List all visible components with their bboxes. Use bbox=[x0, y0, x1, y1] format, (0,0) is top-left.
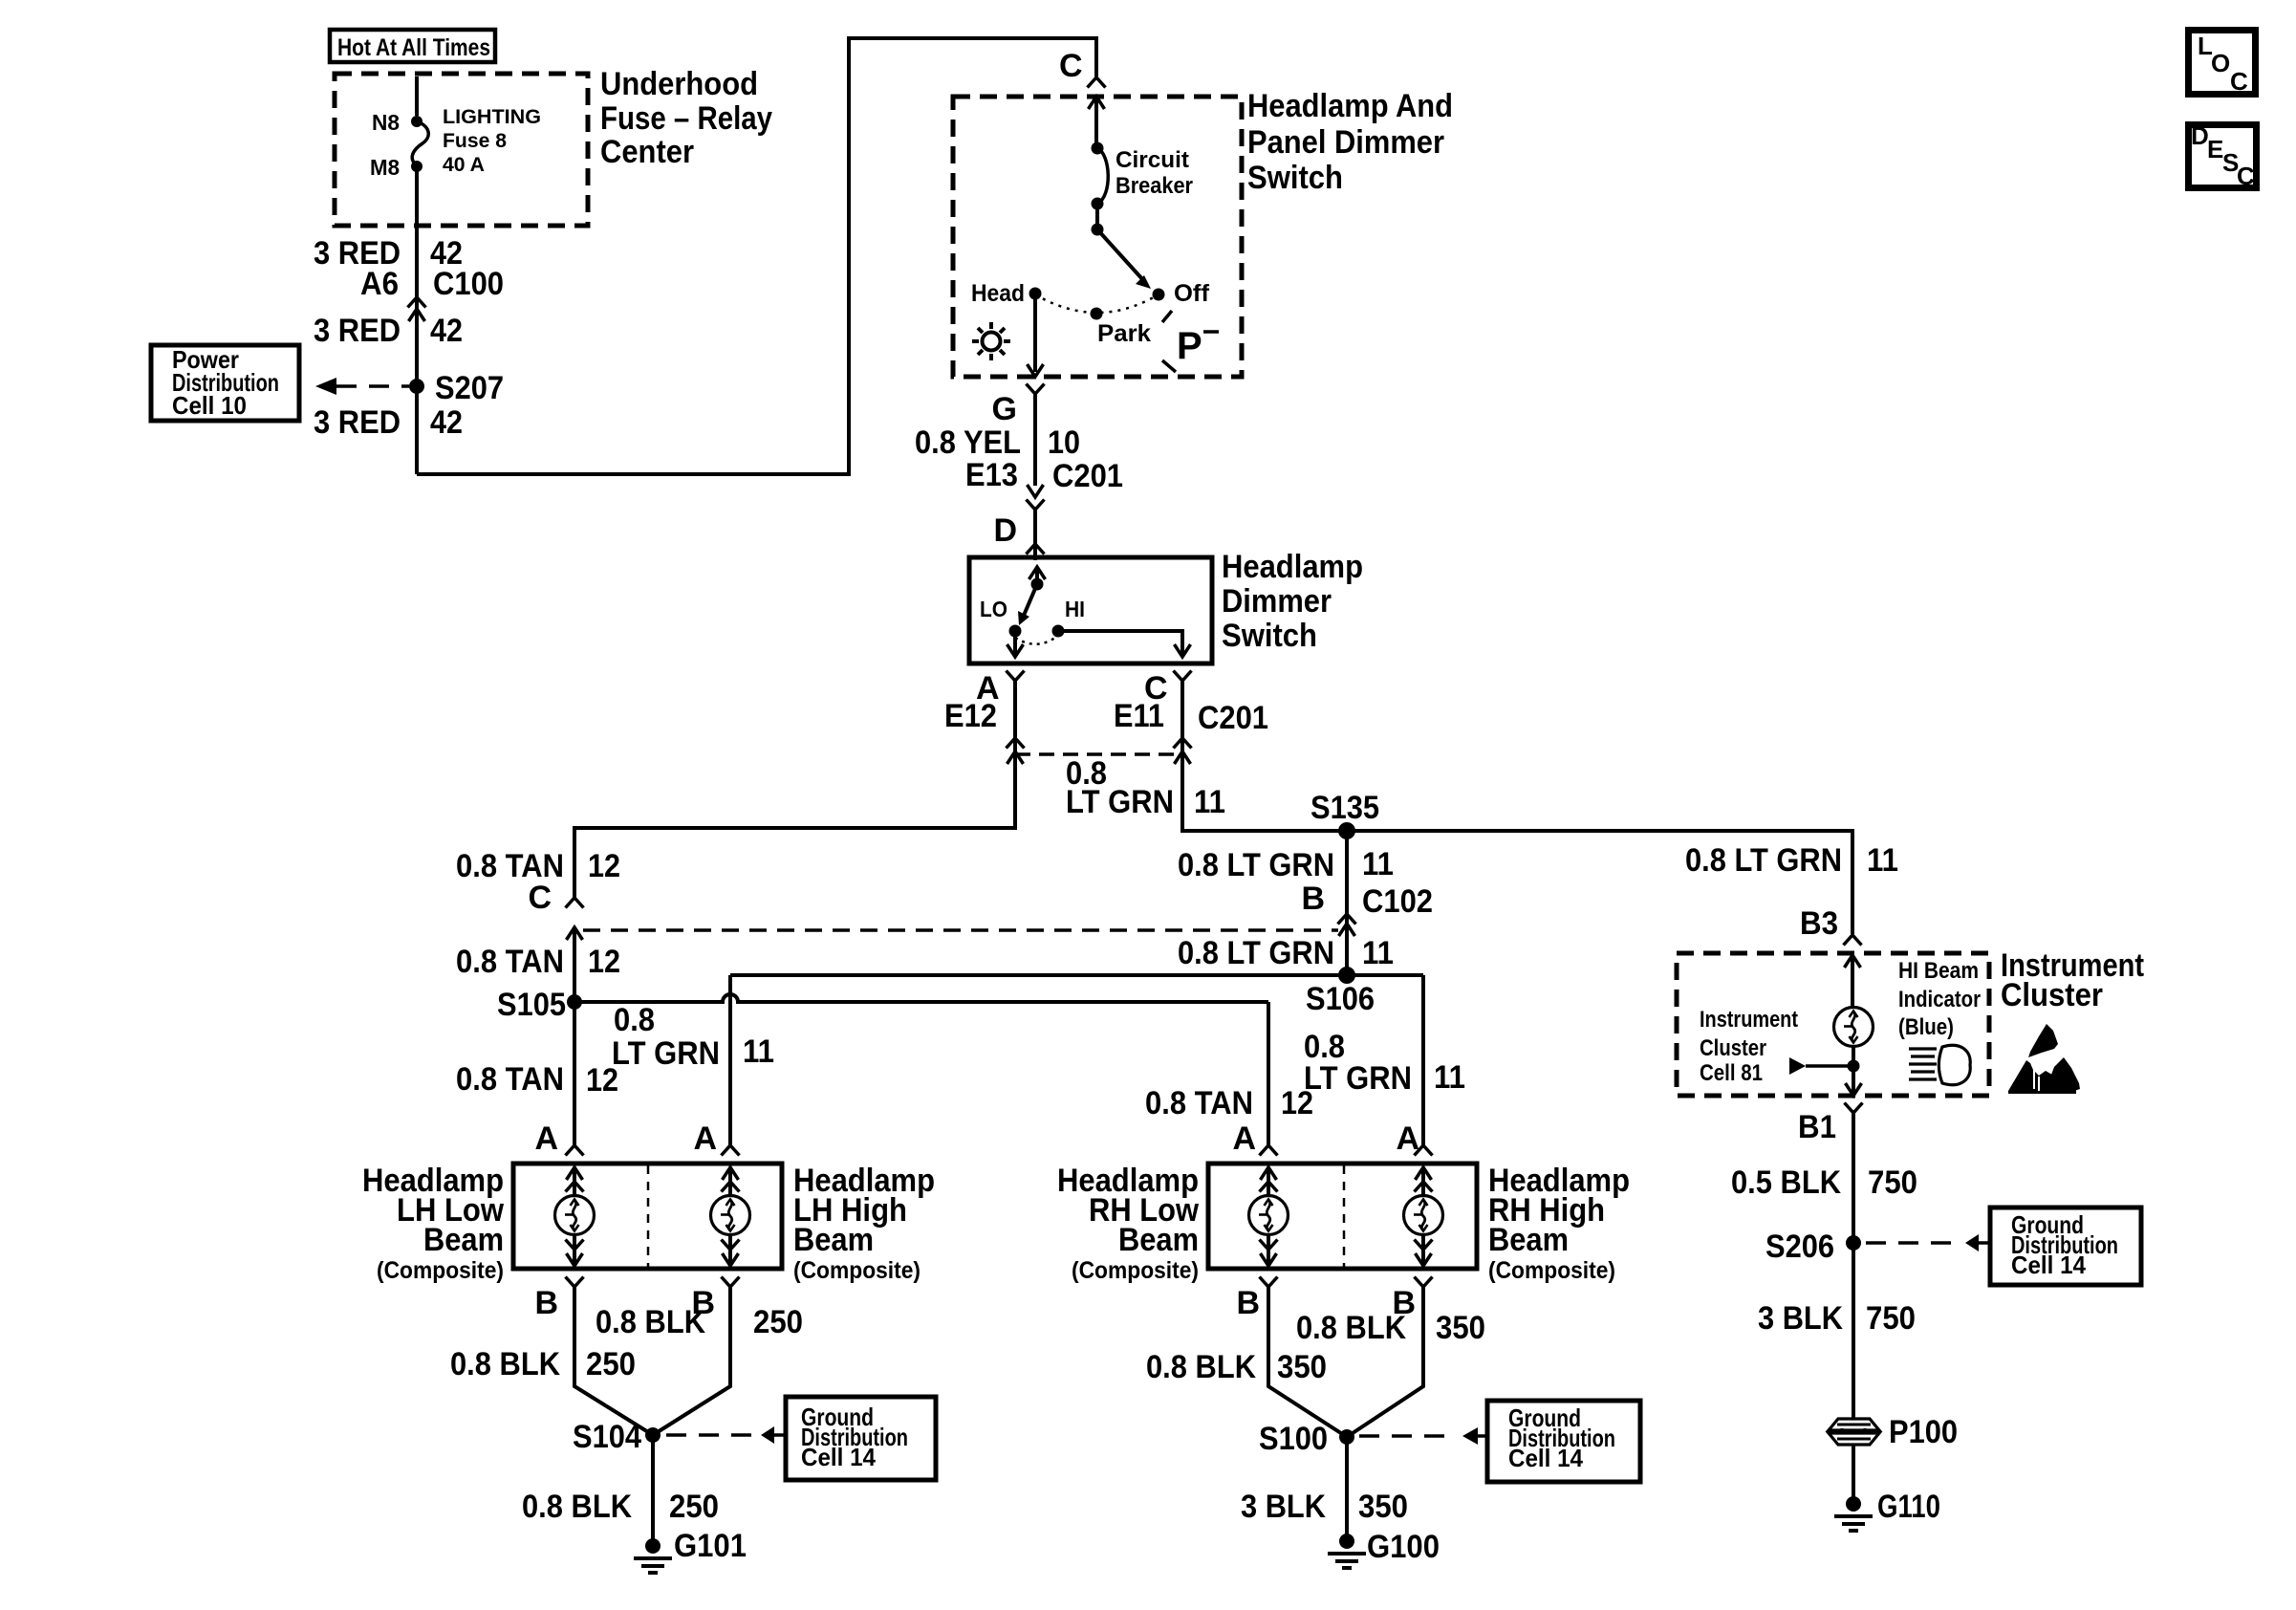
splice S104 bbox=[645, 1427, 661, 1443]
svg-text:S100: S100 bbox=[1259, 1421, 1328, 1457]
connector pin A chevron below dimmer bbox=[1007, 671, 1025, 682]
dashed reference arrow S104 to ground distribution bbox=[666, 1426, 786, 1444]
wire: G to C201 bbox=[1033, 394, 1037, 486]
wire: battery feed into fuse bbox=[415, 76, 419, 116]
connector pin B1 chevron bbox=[1845, 1103, 1863, 1114]
label A6 C100 bbox=[360, 266, 504, 302]
svg-text:0.8 BLK: 0.8 BLK bbox=[1146, 1349, 1256, 1385]
svg-text:Dimmer: Dimmer bbox=[1222, 583, 1332, 620]
legend box DESC bbox=[2189, 121, 2257, 190]
label 0.8 TAN 12 (above C102) bbox=[456, 848, 620, 884]
label 0.8 LT GRN 11 (below C102) bbox=[1178, 935, 1394, 971]
svg-text:11: 11 bbox=[1867, 842, 1898, 879]
dimmer switch common arm bbox=[1018, 567, 1046, 625]
switch arm with arrowhead bbox=[1097, 229, 1151, 289]
svg-text:Beam: Beam bbox=[793, 1222, 874, 1258]
bulb: Headlamp LH Low Beam bbox=[555, 1196, 595, 1235]
svg-text:0.8 LT GRN: 0.8 LT GRN bbox=[1178, 847, 1334, 883]
svg-text:11: 11 bbox=[743, 1033, 774, 1070]
svg-text:750: 750 bbox=[1868, 1164, 1917, 1201]
dashed reference arrow S100 to ground distribution bbox=[1359, 1427, 1487, 1445]
label 3 BLK 350 (to G100) bbox=[1241, 1489, 1408, 1525]
component box: RH headlamps bbox=[1208, 1164, 1477, 1269]
contact LO with output arrow bbox=[1007, 625, 1024, 658]
LH high beam terminal arrows (B side) bbox=[722, 1236, 740, 1266]
label: Headlamp RH High Beam (Composite) bbox=[1488, 1163, 1630, 1284]
svg-text:11: 11 bbox=[1362, 935, 1394, 971]
svg-text:C: C bbox=[528, 880, 552, 916]
pass-through grommet P100 bbox=[1829, 1419, 1879, 1445]
svg-text:S104: S104 bbox=[573, 1419, 641, 1455]
svg-text:Cell 14: Cell 14 bbox=[2011, 1251, 2087, 1279]
svg-text:Circuit: Circuit bbox=[1116, 147, 1189, 173]
connector pin B chevron (RH high) bbox=[1415, 1277, 1433, 1288]
svg-text:Beam: Beam bbox=[423, 1222, 504, 1258]
svg-text:Cluster: Cluster bbox=[2001, 977, 2103, 1013]
svg-text:D: D bbox=[993, 512, 1017, 549]
connector pin A chevron (RH high) bbox=[1415, 1145, 1433, 1156]
component box: Instrument Cluster (dashed) bbox=[1677, 953, 1989, 1096]
svg-text:10: 10 bbox=[1048, 424, 1080, 461]
label 3 RED 42 (below C100) bbox=[314, 313, 463, 349]
connector pin A chevron (LH high) bbox=[722, 1145, 740, 1156]
svg-text:3 BLK: 3 BLK bbox=[1241, 1489, 1326, 1525]
connector C201 pin E12 (chevron + arrow) bbox=[1007, 738, 1025, 764]
label 3 RED 42 (below S207) bbox=[314, 404, 463, 441]
bulb: Headlamp RH Low Beam bbox=[1249, 1196, 1289, 1235]
ESD sensitive device logo bbox=[2008, 1024, 2080, 1094]
svg-text:E13: E13 bbox=[965, 457, 1018, 493]
wire: S104 to G101 bbox=[651, 1435, 655, 1539]
svg-text:A: A bbox=[534, 1120, 558, 1157]
svg-text:M8: M8 bbox=[370, 155, 400, 180]
svg-text:B3: B3 bbox=[1800, 905, 1838, 942]
reference box: Ground Distribution Cell 14 (RH) bbox=[1487, 1401, 1640, 1482]
wire: S106 right branch down to RH high beam bbox=[1421, 975, 1425, 1145]
reference box: Ground Distribution Cell 14 (LH) bbox=[786, 1397, 936, 1480]
svg-text:Underhood: Underhood bbox=[600, 66, 758, 102]
connector pin C chevron below dimmer bbox=[1174, 671, 1192, 682]
component box: Headlamp And Panel Dimmer Switch (dashed) bbox=[953, 97, 1242, 377]
contact Head bbox=[1029, 288, 1042, 300]
dotted arc LO to HI bbox=[1015, 637, 1056, 644]
svg-text:Hot At All Times: Hot At All Times bbox=[337, 34, 490, 61]
svg-text:A: A bbox=[1232, 1120, 1256, 1157]
dashed divider LH box bbox=[647, 1165, 650, 1267]
svg-text:Beam: Beam bbox=[1488, 1222, 1569, 1258]
svg-text:Fuse – Relay: Fuse – Relay bbox=[600, 100, 772, 137]
LH low beam terminal arrows (B side) bbox=[566, 1236, 584, 1266]
svg-text:S207: S207 bbox=[435, 370, 504, 406]
splice S106 bbox=[1338, 967, 1355, 984]
svg-text:11: 11 bbox=[1434, 1059, 1465, 1096]
contact Off bbox=[1153, 289, 1165, 301]
connector pin B chevron (LH low) bbox=[566, 1277, 584, 1288]
wire: RH low beam drop bbox=[1267, 1002, 1270, 1145]
svg-text:42: 42 bbox=[430, 404, 463, 441]
circuit breaker bbox=[1092, 142, 1109, 236]
label: HI Beam Indicator (Blue) bbox=[1898, 958, 1981, 1040]
label B C102 bbox=[1301, 881, 1433, 920]
svg-text:3 RED: 3 RED bbox=[314, 313, 401, 349]
label 0.8 BLK 250 (LH high) bbox=[596, 1304, 803, 1340]
wire: S105 horizontal to RH low beam with hop over LH high wire bbox=[574, 994, 1268, 1002]
svg-text:E12: E12 bbox=[944, 698, 997, 734]
svg-text:LO: LO bbox=[980, 597, 1007, 621]
connector pin D chevron bbox=[1027, 544, 1045, 555]
label 0.8 LT GRN 11 (RH high beam) bbox=[1304, 1029, 1465, 1097]
svg-text:P100: P100 bbox=[1889, 1414, 1958, 1450]
bulb: Headlamp LH High Beam bbox=[711, 1196, 750, 1235]
svg-text:Fuse 8: Fuse 8 bbox=[443, 130, 507, 152]
svg-text:350: 350 bbox=[1277, 1349, 1327, 1385]
svg-text:Center: Center bbox=[600, 134, 694, 170]
wire: S100 to G100 bbox=[1345, 1437, 1349, 1534]
high beam indicator icon bbox=[1909, 1045, 1970, 1084]
wire: E11 (high beam feed) down, right through S135 to instrument cluster bbox=[1182, 681, 1852, 934]
label 0.5 BLK 750 bbox=[1731, 1164, 1917, 1201]
dashed divider RH box bbox=[1343, 1165, 1346, 1267]
label: Headlamp Dimmer Switch bbox=[1222, 549, 1363, 654]
svg-text:0.8 BLK: 0.8 BLK bbox=[522, 1489, 632, 1525]
svg-text:Cell 14: Cell 14 bbox=[801, 1443, 877, 1471]
connector pin A chevron (LH low) bbox=[566, 1145, 584, 1156]
ground G101 bbox=[634, 1538, 672, 1573]
reference arrow from Instrument Cluster Cell 81 bbox=[1789, 1057, 1849, 1075]
wire: C102 to S105 and LH low beam bbox=[573, 927, 576, 1145]
dashed reference arrow to Power Distribution bbox=[315, 378, 409, 395]
svg-text:S206: S206 bbox=[1765, 1229, 1834, 1265]
splice S105 bbox=[567, 994, 582, 1010]
svg-text:0.5 BLK: 0.5 BLK bbox=[1731, 1164, 1841, 1201]
wire: S207 down, right, up and over to headlamp switch pin C bbox=[417, 38, 1096, 474]
park lamp icon P bbox=[1162, 311, 1219, 372]
dotted selector travel arc bbox=[1035, 294, 1159, 313]
svg-text:C102: C102 bbox=[1362, 883, 1433, 920]
svg-text:G100: G100 bbox=[1367, 1529, 1440, 1565]
svg-text:Cluster: Cluster bbox=[1700, 1035, 1766, 1061]
svg-text:(Composite): (Composite) bbox=[377, 1257, 504, 1284]
svg-text:S106: S106 bbox=[1306, 981, 1375, 1017]
junction to cluster cell 81 bbox=[1848, 1060, 1860, 1073]
connector pin A chevron (RH low) bbox=[1260, 1145, 1278, 1156]
wire: S106 horizontal distribution to LH and RH high beams bbox=[730, 973, 1423, 977]
label: LIGHTING Fuse 8 40 A bbox=[443, 106, 541, 176]
wire: RH low beam ground to S100 bbox=[1268, 1287, 1347, 1437]
svg-text:Switch: Switch bbox=[1222, 618, 1317, 654]
svg-text:O: O bbox=[2211, 49, 2230, 77]
reference box: Ground Distribution Cell 14 (cluster) bbox=[1990, 1207, 2141, 1285]
LH high beam terminal arrows (A side) bbox=[722, 1167, 740, 1195]
label 0.8 TAN 12 (RH low beam) bbox=[1145, 1085, 1313, 1121]
wire: S135 down to S106 bbox=[1345, 831, 1349, 975]
svg-text:G: G bbox=[992, 391, 1017, 427]
svg-text:0.8 TAN: 0.8 TAN bbox=[1145, 1085, 1253, 1121]
label 0.8 BLK 250 (to G101) bbox=[522, 1489, 719, 1525]
legend box LOC bbox=[2189, 31, 2256, 97]
label 0.8 LT GRN 11 (to instrument cluster) bbox=[1685, 842, 1898, 879]
wire: B1 to S206 to P100 to G110 bbox=[1852, 1113, 1855, 1497]
connector pin G chevron bbox=[1027, 384, 1045, 395]
wire: fuse output M8 down through C100 to S207 and corner bbox=[415, 166, 419, 474]
svg-text:11: 11 bbox=[1362, 846, 1394, 882]
RH high beam terminal arrows (B side) bbox=[1415, 1236, 1433, 1266]
wire: LH high beam ground to S104 bbox=[653, 1287, 730, 1435]
wire: indicator to B1 bbox=[1852, 1047, 1855, 1093]
label 0.8 LT GRN 11 (above C102) bbox=[1178, 846, 1394, 883]
wire: E12 (low beam feed) down and left bbox=[574, 681, 1015, 898]
dashed connector line C102 bbox=[583, 928, 1338, 932]
dashed reference arrow S206 to ground distribution bbox=[1866, 1234, 1990, 1251]
svg-text:LT GRN: LT GRN bbox=[612, 1035, 720, 1072]
label 0.8 TAN 12 (LH low beam) bbox=[456, 1061, 618, 1099]
label: Instrument Cluster (component name) bbox=[2001, 947, 2144, 1013]
svg-text:250: 250 bbox=[586, 1346, 636, 1382]
svg-text:Headlamp: Headlamp bbox=[1222, 549, 1363, 585]
svg-text:350: 350 bbox=[1436, 1310, 1485, 1346]
label: Headlamp LH Low Beam (Composite) bbox=[362, 1163, 504, 1284]
svg-text:Cell 14: Cell 14 bbox=[1508, 1444, 1584, 1472]
svg-text:P: P bbox=[1177, 325, 1202, 367]
svg-text:Indicator: Indicator bbox=[1898, 987, 1981, 1012]
svg-text:E11: E11 bbox=[1114, 698, 1164, 734]
label 0.8 YEL 10 bbox=[915, 424, 1080, 461]
svg-text:LT GRN: LT GRN bbox=[1304, 1060, 1412, 1097]
label: Instrument Cluster Cell 81 bbox=[1700, 1007, 1798, 1086]
svg-text:(Composite): (Composite) bbox=[793, 1257, 921, 1284]
connector C201 pin E11 (chevron + arrow) bbox=[1174, 738, 1192, 764]
svg-text:C: C bbox=[2237, 162, 2255, 190]
wire/arrow entering cluster at B3 bbox=[1845, 955, 1861, 1007]
splice S100 bbox=[1339, 1429, 1354, 1445]
svg-text:0.8 BLK: 0.8 BLK bbox=[1296, 1310, 1406, 1346]
connector C100 pin A6 (chevron + arrow) bbox=[408, 297, 426, 321]
svg-text:Headlamp And: Headlamp And bbox=[1247, 88, 1453, 124]
svg-text:250: 250 bbox=[669, 1489, 719, 1525]
label: Headlamp And Panel Dimmer Switch bbox=[1247, 88, 1453, 196]
svg-text:HI: HI bbox=[1065, 597, 1085, 621]
svg-text:0.8 TAN: 0.8 TAN bbox=[456, 944, 564, 980]
svg-text:40 A: 40 A bbox=[443, 154, 485, 176]
contact Park bbox=[1091, 308, 1103, 320]
power source label box "Hot At All Times" bbox=[330, 30, 495, 62]
svg-text:B: B bbox=[1301, 881, 1325, 917]
svg-text:C201: C201 bbox=[1198, 700, 1268, 736]
wire: LH low beam ground to S104 bbox=[574, 1287, 653, 1435]
RH low beam terminal arrows (A side) bbox=[1260, 1167, 1278, 1195]
wire: C201 to dimmer switch pin D bbox=[1033, 510, 1037, 560]
svg-text:G110: G110 bbox=[1877, 1489, 1940, 1525]
svg-text:12: 12 bbox=[588, 944, 620, 980]
svg-text:(Composite): (Composite) bbox=[1072, 1257, 1199, 1284]
svg-text:0.8 LT GRN: 0.8 LT GRN bbox=[1178, 935, 1334, 971]
connector C102 pin B (chevron + arrow) bbox=[1338, 914, 1356, 936]
connector C102 pin C (chevron + arrow) bbox=[566, 898, 584, 940]
component box: Underhood Fuse-Relay Center (dashed) bbox=[335, 74, 588, 226]
svg-text:S105: S105 bbox=[497, 987, 566, 1023]
svg-text:350: 350 bbox=[1358, 1489, 1408, 1525]
svg-text:Cell 10: Cell 10 bbox=[172, 391, 247, 420]
label 3 BLK 750 bbox=[1758, 1300, 1916, 1337]
svg-text:B: B bbox=[534, 1285, 558, 1321]
svg-text:LT GRN: LT GRN bbox=[1066, 784, 1174, 820]
wire: Head contact to switch pin G bbox=[1028, 294, 1044, 377]
wire: S106 left branch down to LH high beam bbox=[728, 975, 732, 1145]
svg-text:LIGHTING: LIGHTING bbox=[443, 106, 541, 128]
component box: Headlamp Dimmer Switch bbox=[969, 557, 1212, 664]
svg-text:Switch: Switch bbox=[1247, 160, 1343, 196]
LH low beam terminal arrows (A side) bbox=[566, 1167, 584, 1195]
svg-text:Park: Park bbox=[1097, 320, 1151, 347]
svg-text:B: B bbox=[1236, 1285, 1260, 1321]
svg-text:Panel Dimmer: Panel Dimmer bbox=[1247, 124, 1444, 161]
contact HI with wire and output arrow bbox=[1052, 625, 1191, 658]
svg-text:(Composite): (Composite) bbox=[1488, 1257, 1615, 1284]
svg-text:0.8 BLK: 0.8 BLK bbox=[450, 1346, 560, 1382]
splice S135 bbox=[1338, 822, 1355, 839]
svg-text:G101: G101 bbox=[674, 1528, 747, 1564]
svg-text:A: A bbox=[693, 1120, 717, 1157]
label 0.8 TAN 12 (below C102) bbox=[456, 944, 620, 980]
wire/arrow entering switch at C bbox=[1089, 97, 1105, 148]
svg-text:12: 12 bbox=[588, 848, 620, 884]
svg-text:A6: A6 bbox=[360, 266, 399, 302]
svg-text:D: D bbox=[2191, 121, 2209, 150]
splice S207 bbox=[409, 379, 424, 394]
splice S206 bbox=[1846, 1235, 1861, 1251]
label 0.8 BLK 350 (RH high) bbox=[1296, 1310, 1485, 1346]
svg-text:0.8 TAN: 0.8 TAN bbox=[456, 1061, 564, 1098]
svg-text:42: 42 bbox=[430, 313, 463, 349]
fuse F8 LIGHTING 40 A bbox=[411, 116, 428, 172]
label: Headlamp RH Low Beam (Composite) bbox=[1057, 1163, 1199, 1284]
svg-text:Breaker: Breaker bbox=[1116, 173, 1193, 199]
label 0.8 LT GRN 11 (LH high beam) bbox=[612, 1002, 774, 1072]
svg-text:3 BLK: 3 BLK bbox=[1758, 1300, 1843, 1337]
wire: RH high beam ground to S100 bbox=[1347, 1287, 1423, 1437]
svg-text:3 RED: 3 RED bbox=[314, 404, 401, 441]
svg-text:C201: C201 bbox=[1052, 458, 1123, 494]
arrow exiting cluster at B1 bbox=[1846, 1083, 1862, 1096]
svg-text:11: 11 bbox=[1194, 784, 1225, 820]
svg-text:0.8 TAN: 0.8 TAN bbox=[456, 848, 564, 884]
svg-text:Off: Off bbox=[1174, 280, 1210, 307]
bulb: Headlamp RH High Beam bbox=[1404, 1196, 1443, 1235]
dashed connector line C201 bbox=[1015, 752, 1182, 756]
svg-text:S135: S135 bbox=[1310, 790, 1379, 826]
svg-text:C100: C100 bbox=[433, 266, 504, 302]
svg-text:C: C bbox=[2230, 67, 2248, 96]
connector pin C chevron bbox=[1088, 77, 1106, 88]
svg-text:250: 250 bbox=[753, 1304, 803, 1340]
bulb: HI Beam Indicator bbox=[1834, 1008, 1874, 1047]
ground G110 bbox=[1834, 1496, 1873, 1531]
svg-text:C: C bbox=[1059, 48, 1083, 84]
svg-text:N8: N8 bbox=[372, 110, 400, 135]
label 0.8 BLK 350 (RH low) bbox=[1146, 1349, 1327, 1385]
svg-text:Instrument: Instrument bbox=[1700, 1007, 1798, 1033]
connector C201 pin E13 (arrow + chevron) bbox=[1027, 485, 1045, 510]
svg-text:0.8: 0.8 bbox=[614, 1002, 655, 1038]
svg-text:Head: Head bbox=[971, 280, 1025, 307]
label: Circuit Breaker bbox=[1116, 147, 1193, 199]
label: Underhood Fuse-Relay Center bbox=[600, 66, 772, 170]
RH low beam terminal arrows (B side) bbox=[1260, 1236, 1278, 1266]
label 3 RED 42 (above C100) bbox=[314, 235, 463, 272]
svg-text:750: 750 bbox=[1866, 1300, 1916, 1337]
svg-text:0.8 LT GRN: 0.8 LT GRN bbox=[1685, 842, 1842, 879]
svg-text:B1: B1 bbox=[1798, 1109, 1836, 1145]
reference box: Power Distribution Cell 10 bbox=[151, 345, 299, 421]
label E13 C201 bbox=[965, 457, 1123, 494]
svg-text:0.8 YEL: 0.8 YEL bbox=[915, 424, 1021, 461]
connector pin B chevron (LH high) bbox=[722, 1277, 740, 1288]
headlamp (sun) icon bbox=[972, 322, 1010, 360]
svg-text:Beam: Beam bbox=[1118, 1222, 1199, 1258]
connector pin B chevron (RH low) bbox=[1260, 1277, 1278, 1288]
component box: LH headlamps bbox=[513, 1164, 782, 1269]
connector pin B3 chevron bbox=[1844, 935, 1862, 946]
svg-text:12: 12 bbox=[1281, 1085, 1313, 1121]
RH high beam terminal arrows (A side) bbox=[1415, 1167, 1433, 1195]
svg-text:(Blue): (Blue) bbox=[1898, 1014, 1954, 1040]
svg-text:HI Beam: HI Beam bbox=[1898, 958, 1979, 984]
label 0.8 BLK 250 (LH low) bbox=[450, 1346, 636, 1382]
label 0.8 LT GRN 11 (E11 output) bbox=[1066, 755, 1225, 820]
label: Headlamp LH High Beam (Composite) bbox=[793, 1163, 935, 1284]
svg-text:Cell 81: Cell 81 bbox=[1700, 1060, 1763, 1086]
svg-text:0.8 BLK: 0.8 BLK bbox=[596, 1304, 705, 1340]
svg-text:E: E bbox=[2207, 135, 2223, 163]
ground G100 bbox=[1328, 1534, 1366, 1568]
